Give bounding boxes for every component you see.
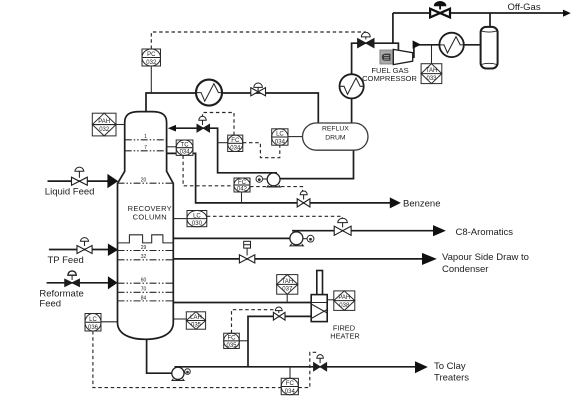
svg-text:035: 035 bbox=[226, 343, 237, 349]
tray 32 bbox=[118, 259, 174, 261]
svg-text:TAH: TAH bbox=[426, 68, 438, 74]
instrument FC035 bbox=[224, 333, 240, 349]
arrow to clay treaters bbox=[415, 361, 428, 373]
arrow TP feed into column bbox=[108, 244, 118, 257]
wire fired heater feed riser with valve bbox=[248, 316, 311, 366]
compressor suction cooler E2 bbox=[340, 74, 364, 98]
instrument TAH037 (alarm) bbox=[277, 275, 298, 295]
instrument PC032 bbox=[142, 49, 161, 66]
wire LAH035 tap bbox=[173, 318, 186, 320]
instrument TC034 bbox=[176, 140, 193, 156]
reflux pump small seal circle bbox=[256, 176, 267, 183]
valve reflux (filled) bbox=[197, 116, 210, 132]
svg-text:Vapour Side Draw to: Vapour Side Draw to bbox=[442, 252, 529, 263]
wire compressor bypass riser to off-gas header bbox=[392, 13, 394, 43]
instrument LC030 bbox=[187, 211, 207, 227]
valve fired heater inlet bbox=[273, 307, 285, 320]
svg-text:035: 035 bbox=[191, 323, 202, 329]
wire C8 draw from chimney tray to pump bbox=[173, 237, 290, 239]
wire reflux pump discharge up through reflux valve into column bbox=[176, 128, 277, 173]
valve compressor suction bbox=[358, 32, 374, 47]
wire LC034 tap to reflux drum bbox=[288, 136, 303, 138]
wire column bottoms outlet to pump bbox=[147, 339, 172, 373]
compressor discharge cooler E3 bbox=[439, 33, 464, 57]
wire compressor suction from drum top up through cooler bbox=[352, 43, 399, 123]
arrow C8 aromatics bbox=[433, 225, 446, 236]
recovery column vessel outline bbox=[118, 112, 174, 340]
fired heater coil bbox=[311, 303, 327, 319]
svg-text:C8-Aromatics: C8-Aromatics bbox=[456, 227, 514, 238]
svg-text:DRUM: DRUM bbox=[325, 135, 346, 142]
condenser exchanger E1 bbox=[196, 80, 222, 106]
instrument PAH032 (alarm) bbox=[92, 113, 116, 136]
tray 70 bbox=[118, 291, 174, 293]
wire TAH037 tap bbox=[286, 294, 288, 302]
wire knockout drum top connection bbox=[489, 13, 491, 27]
wire PAH032 tap bbox=[116, 124, 125, 126]
instrument LC034 bbox=[272, 129, 288, 146]
svg-text:037: 037 bbox=[282, 287, 293, 293]
svg-text:Benzene: Benzene bbox=[403, 199, 441, 210]
svg-text:LC: LC bbox=[193, 213, 201, 219]
svg-text:Condenser: Condenser bbox=[442, 264, 488, 275]
tray 20 bbox=[118, 182, 174, 184]
valve overhead after condenser bbox=[251, 83, 266, 96]
wire overhead vapor line from column top to condenser to reflux drum bbox=[146, 93, 318, 124]
svg-text:7: 7 bbox=[144, 145, 147, 151]
wire TC034 tap bbox=[167, 146, 177, 148]
flow arrow after compressor bbox=[413, 40, 421, 48]
bottoms pump P3 bbox=[172, 367, 184, 380]
reflux pump P1 bbox=[267, 173, 280, 187]
instrument FC042 bbox=[234, 178, 250, 193]
svg-text:033: 033 bbox=[426, 76, 437, 82]
svg-text:LC: LC bbox=[276, 132, 284, 138]
svg-text:TC: TC bbox=[181, 142, 190, 148]
svg-text:034: 034 bbox=[180, 150, 191, 156]
chimney draw tray bbox=[118, 235, 174, 243]
svg-text:FC: FC bbox=[238, 180, 247, 186]
signal FC034b to clay treaters valve (dashed) bbox=[298, 352, 316, 387]
svg-text:70: 70 bbox=[141, 287, 147, 293]
svg-text:034: 034 bbox=[230, 146, 241, 152]
svg-text:TP Feed: TP Feed bbox=[48, 255, 84, 266]
svg-text:036: 036 bbox=[88, 325, 99, 331]
instrument TAH033 (alarm) bbox=[421, 64, 442, 84]
signal LC036 to FC034b (dashed) bbox=[93, 331, 281, 388]
tray 7 bbox=[125, 150, 167, 152]
arrow vapour side draw bbox=[422, 253, 437, 265]
wire off-gas header bbox=[393, 12, 564, 14]
fuel gas compressor grey casing bbox=[380, 50, 393, 64]
svg-text:PAH: PAH bbox=[98, 119, 110, 125]
signal FC035 to heater inlet valve (dashed) bbox=[232, 310, 276, 334]
instrument FC034b bottoms bbox=[281, 378, 298, 395]
instrument LAH035 (alarm) bbox=[186, 312, 205, 329]
svg-text:030: 030 bbox=[192, 221, 203, 227]
signal FC034 to LC034 (dashed) bbox=[243, 143, 280, 158]
svg-text:HEATER: HEATER bbox=[330, 332, 359, 341]
wire FC035 tap bbox=[239, 340, 248, 342]
svg-text:To Clay: To Clay bbox=[434, 361, 466, 372]
knockout drum vessel bbox=[481, 27, 498, 69]
svg-text:042: 042 bbox=[237, 187, 248, 193]
instrument FC034 reflux bbox=[228, 135, 243, 152]
valve benzene product bbox=[297, 191, 310, 207]
fired heater body bbox=[311, 295, 327, 322]
svg-text:1: 1 bbox=[144, 134, 147, 140]
arrow reflux into column bbox=[168, 125, 176, 132]
valve to clay treaters (filled) bbox=[314, 355, 327, 371]
svg-text:REFLUX: REFLUX bbox=[322, 125, 349, 132]
valve TP feed bbox=[77, 238, 92, 254]
svg-text:FC: FC bbox=[228, 336, 237, 342]
reflux drum vessel bbox=[303, 123, 369, 150]
wire FC034 tap to reflux line bbox=[218, 142, 228, 144]
wire PAH038 tap bbox=[327, 299, 334, 301]
wire LC036 tap bbox=[101, 321, 118, 323]
svg-text:PAH: PAH bbox=[338, 295, 350, 301]
wire FC034b tap bbox=[289, 367, 291, 379]
svg-text:PC: PC bbox=[147, 52, 156, 58]
fuel gas compressor body bbox=[393, 49, 412, 64]
svg-text:Feed: Feed bbox=[39, 299, 61, 310]
wire TP feed line bbox=[49, 249, 108, 251]
valve off-gas (heavy) bbox=[430, 2, 450, 18]
svg-text:032: 032 bbox=[99, 127, 110, 133]
svg-text:Liquid Feed: Liquid Feed bbox=[45, 186, 95, 197]
svg-text:LC: LC bbox=[89, 317, 97, 323]
instrument PAH038 (alarm) bbox=[334, 291, 355, 311]
wire PC032 tap to overhead line bbox=[150, 66, 152, 93]
svg-text:60: 60 bbox=[141, 278, 147, 284]
fuel gas compressor motor icon bbox=[382, 54, 391, 61]
wire fired heater return to column bbox=[173, 302, 311, 304]
svg-text:COMPRESSOR: COMPRESSOR bbox=[362, 74, 417, 83]
svg-text:LAH: LAH bbox=[190, 315, 202, 321]
svg-text:COLUMN: COLUMN bbox=[133, 212, 167, 221]
valve liquid feed bbox=[72, 167, 88, 185]
bottoms pump small seal circle bbox=[184, 369, 191, 375]
signal TC034 to FC042 (dashed) bbox=[183, 155, 234, 185]
fired heater stack bbox=[317, 271, 323, 296]
signal FC042 to benzene valve (dashed) bbox=[250, 187, 303, 196]
arrow reformate feed into column bbox=[108, 276, 118, 289]
tray 1 bbox=[125, 139, 167, 141]
signal PC032 to compressor suction valve (dashed) bbox=[151, 32, 365, 49]
svg-text:32: 32 bbox=[141, 254, 147, 260]
arrow liquid feed into column bbox=[107, 174, 118, 188]
valve C8 product bbox=[334, 218, 351, 235]
wire bottoms pump discharge to clay treaters arrow bbox=[175, 366, 416, 368]
wire compressor discharge to cooler to knockout drum bbox=[413, 45, 480, 58]
svg-text:84: 84 bbox=[141, 295, 147, 301]
svg-text:034: 034 bbox=[275, 139, 286, 145]
instrument LC036 bbox=[85, 314, 101, 332]
svg-text:032: 032 bbox=[146, 60, 157, 66]
valve reformate feed bbox=[65, 271, 80, 287]
signal LC030 to C8 valve (dashed) bbox=[207, 216, 342, 219]
signal FC034 to reflux valve (dashed) bbox=[203, 113, 235, 136]
wire FC042 tap to benzene line bbox=[241, 192, 243, 203]
svg-text:FC: FC bbox=[231, 138, 240, 144]
wire C8 pump discharge to product arrow bbox=[292, 230, 433, 232]
wire vapour side draw line bbox=[173, 258, 422, 260]
wire reformate feed line bbox=[47, 282, 108, 284]
wire TAH033 tap bbox=[431, 45, 433, 64]
valve vapour side draw with piston actuator bbox=[239, 241, 254, 263]
svg-text:FC: FC bbox=[286, 381, 295, 387]
svg-text:034: 034 bbox=[285, 389, 296, 395]
svg-text:TAH: TAH bbox=[282, 279, 294, 285]
tray 84 bbox=[118, 300, 174, 302]
wire LC030 tap to column bbox=[173, 218, 187, 220]
arrow benzene bbox=[390, 197, 401, 208]
arrow off-gas bbox=[563, 10, 571, 17]
svg-text:20: 20 bbox=[141, 177, 147, 183]
wire liquid feed line bbox=[48, 180, 108, 182]
svg-text:29: 29 bbox=[141, 245, 147, 251]
wire benzene side draw from column down and to product arrow bbox=[167, 153, 390, 203]
C8 pump small seal circle bbox=[303, 235, 314, 242]
wire reflux drum bottom outlet to reflux pump bbox=[280, 150, 353, 178]
svg-text:Treaters: Treaters bbox=[434, 373, 469, 384]
tray 60 bbox=[118, 282, 174, 284]
tray 29 bbox=[118, 250, 174, 252]
C8 pump P2 bbox=[290, 232, 303, 246]
svg-text:038: 038 bbox=[339, 303, 350, 309]
svg-text:Off-Gas: Off-Gas bbox=[508, 2, 541, 13]
